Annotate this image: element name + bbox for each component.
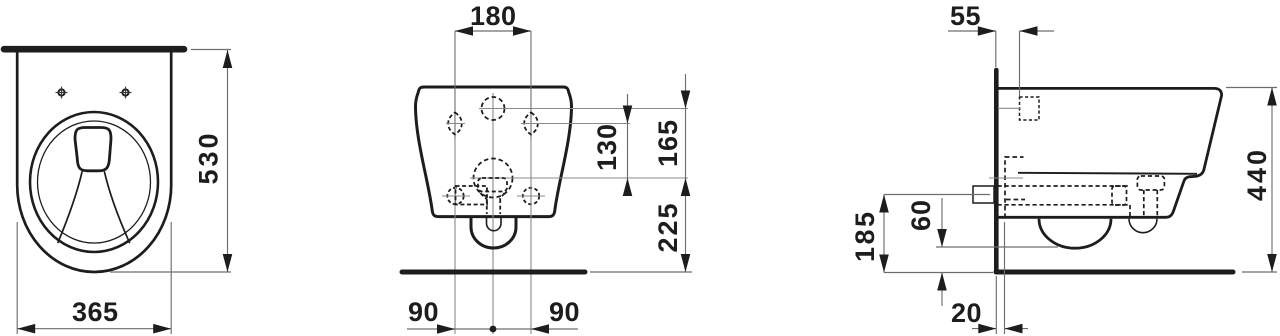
svg-text:225: 225 (653, 201, 683, 252)
fixing slot left crosshair (446, 123, 465, 125)
wall line (994, 70, 999, 272)
floor line side (996, 270, 1233, 275)
svg-text:60: 60 (906, 199, 936, 231)
dim 130 arrow top (623, 106, 633, 124)
flush elbow dashes (1006, 199, 1025, 201)
svg-text:130: 130 (592, 123, 622, 171)
svg-text:90: 90 (549, 297, 580, 327)
dim 530 extension top (191, 49, 231, 51)
dim 55 arrow right (1020, 26, 1038, 36)
dim 165-225 line (685, 74, 687, 272)
outlet shroud arch (471, 218, 516, 249)
svg-text:185: 185 (850, 209, 880, 262)
svg-text:440: 440 (1242, 147, 1272, 201)
svg-text:55: 55 (950, 1, 981, 31)
dim 55 line right (1020, 30, 1055, 32)
dim 60 ext top (936, 246, 1058, 248)
side hole right crosshair (517, 187, 545, 205)
dim 185 ext bottom / floor left (884, 272, 993, 274)
fixing slot right crosshair / ext to 130 dim (521, 123, 630, 125)
extension line right (x=531) (530, 31, 532, 139)
body outline (17, 53, 171, 272)
rim line (1018, 173, 1197, 174)
dim 20 line left (972, 328, 996, 330)
outlet pipe arch (487, 218, 502, 231)
floor line rear (402, 270, 585, 275)
dim 180 arrow left (455, 26, 473, 36)
inlet circle crosshair (479, 108, 688, 110)
outlet circle center (474, 159, 513, 198)
side hole left crosshair (442, 187, 470, 205)
seat hinge hole right (120, 87, 132, 99)
dim 90 arrow left (437, 324, 455, 334)
bowl rim outer (30, 112, 158, 252)
dim 440 line (1271, 88, 1273, 273)
dim 225 extension bottom (590, 271, 692, 273)
outlet center crosshair / ext to dims (470, 177, 688, 179)
flush duct dashed L (1005, 157, 1024, 218)
dim 90 arrow right (531, 324, 549, 334)
side duct rect (456, 186, 488, 205)
dim 440 ext bottom (1242, 271, 1277, 273)
outlet tee head (1137, 176, 1164, 190)
dim 365 arrow left (17, 324, 35, 334)
flush box (478, 178, 507, 192)
wall plate bar (4, 46, 184, 53)
svg-text:20: 20 (951, 298, 982, 328)
dim 185 line (883, 195, 885, 273)
dim 20 line right (1005, 328, 1029, 330)
flush elbow center line (989, 177, 1023, 179)
flush channel (487, 199, 500, 214)
inlet box dashed (1020, 97, 1040, 120)
side hole right (523, 188, 539, 204)
channel square (1112, 186, 1127, 205)
dim 55 ext left (995, 31, 997, 67)
dim 365 extension right (170, 222, 172, 334)
dim 55 ext right (1019, 31, 1021, 96)
supply stub center line (884, 194, 990, 196)
side hole left (447, 188, 463, 204)
outlet pipe arc (1129, 219, 1157, 233)
dim 60 line lower (941, 273, 943, 307)
dim 365 arrow right (153, 324, 171, 334)
dim 20 ext right (1004, 222, 1006, 334)
svg-text:165: 165 (653, 119, 683, 167)
dim 165/225 shared arrow (681, 178, 691, 196)
dim 60 line upper (941, 198, 943, 247)
distribution channel dashed band (998, 186, 1129, 205)
dim 365 line (17, 328, 171, 330)
dim 185 arrow top (879, 195, 889, 213)
dim 180 line (455, 30, 531, 32)
side body outline (998, 88, 1222, 217)
dim 55 line left (948, 30, 996, 32)
dim 440 arrow top (1267, 88, 1277, 106)
inlet circle top (482, 97, 505, 120)
extension line left long (454, 139, 456, 334)
dim 90-90 line (407, 328, 578, 330)
trap bulge arc (1039, 219, 1111, 248)
dim 440 ext top (1226, 87, 1277, 89)
dim 180 arrow right (513, 26, 531, 36)
flush opening square (75, 128, 111, 171)
dim 60 arrow upper (937, 229, 947, 247)
dim 530 extension bottom (110, 271, 231, 273)
dim 130 arrow bottom (623, 178, 633, 196)
bowl rim inner (38, 121, 151, 243)
svg-text:180: 180 (470, 1, 517, 31)
outlet tee stem (1130, 190, 1157, 218)
flush funnel (481, 193, 505, 199)
dim 20 ext left (995, 276, 997, 334)
svg-text:365: 365 (72, 297, 119, 327)
dim 530 arrow top (223, 50, 233, 68)
svg-text:530: 530 (194, 130, 224, 184)
fixing slot right (524, 113, 538, 135)
dim 530 line (227, 50, 229, 272)
svg-text:90: 90 (408, 297, 439, 327)
extension line right long (530, 139, 532, 334)
trap line right (105, 172, 130, 243)
center line vertical (492, 93, 494, 334)
center dot (490, 326, 497, 333)
extension line left (x=455) (454, 31, 456, 139)
dim 20 arrow right (1005, 324, 1023, 334)
dim 20 arrow left (978, 324, 996, 334)
supply stub rect (973, 186, 994, 203)
dim 225 arrow bottom (681, 254, 691, 272)
dim 55 arrow left (978, 26, 996, 36)
dim 165 arrow top (681, 91, 691, 109)
dim 60 arrow lower (937, 273, 947, 291)
seat hinge hole left (56, 87, 68, 99)
dim 185 arrow bottom (879, 255, 889, 273)
trap line left (58, 172, 82, 243)
rear body outline (416, 87, 572, 217)
inlet center line (998, 107, 1021, 109)
dim 365 extension left (16, 222, 18, 334)
dim 530 arrow bottom (223, 254, 233, 272)
dim 440 arrow bottom (1267, 254, 1277, 272)
dim 130 line (627, 94, 629, 196)
fixing slot left (448, 113, 462, 135)
